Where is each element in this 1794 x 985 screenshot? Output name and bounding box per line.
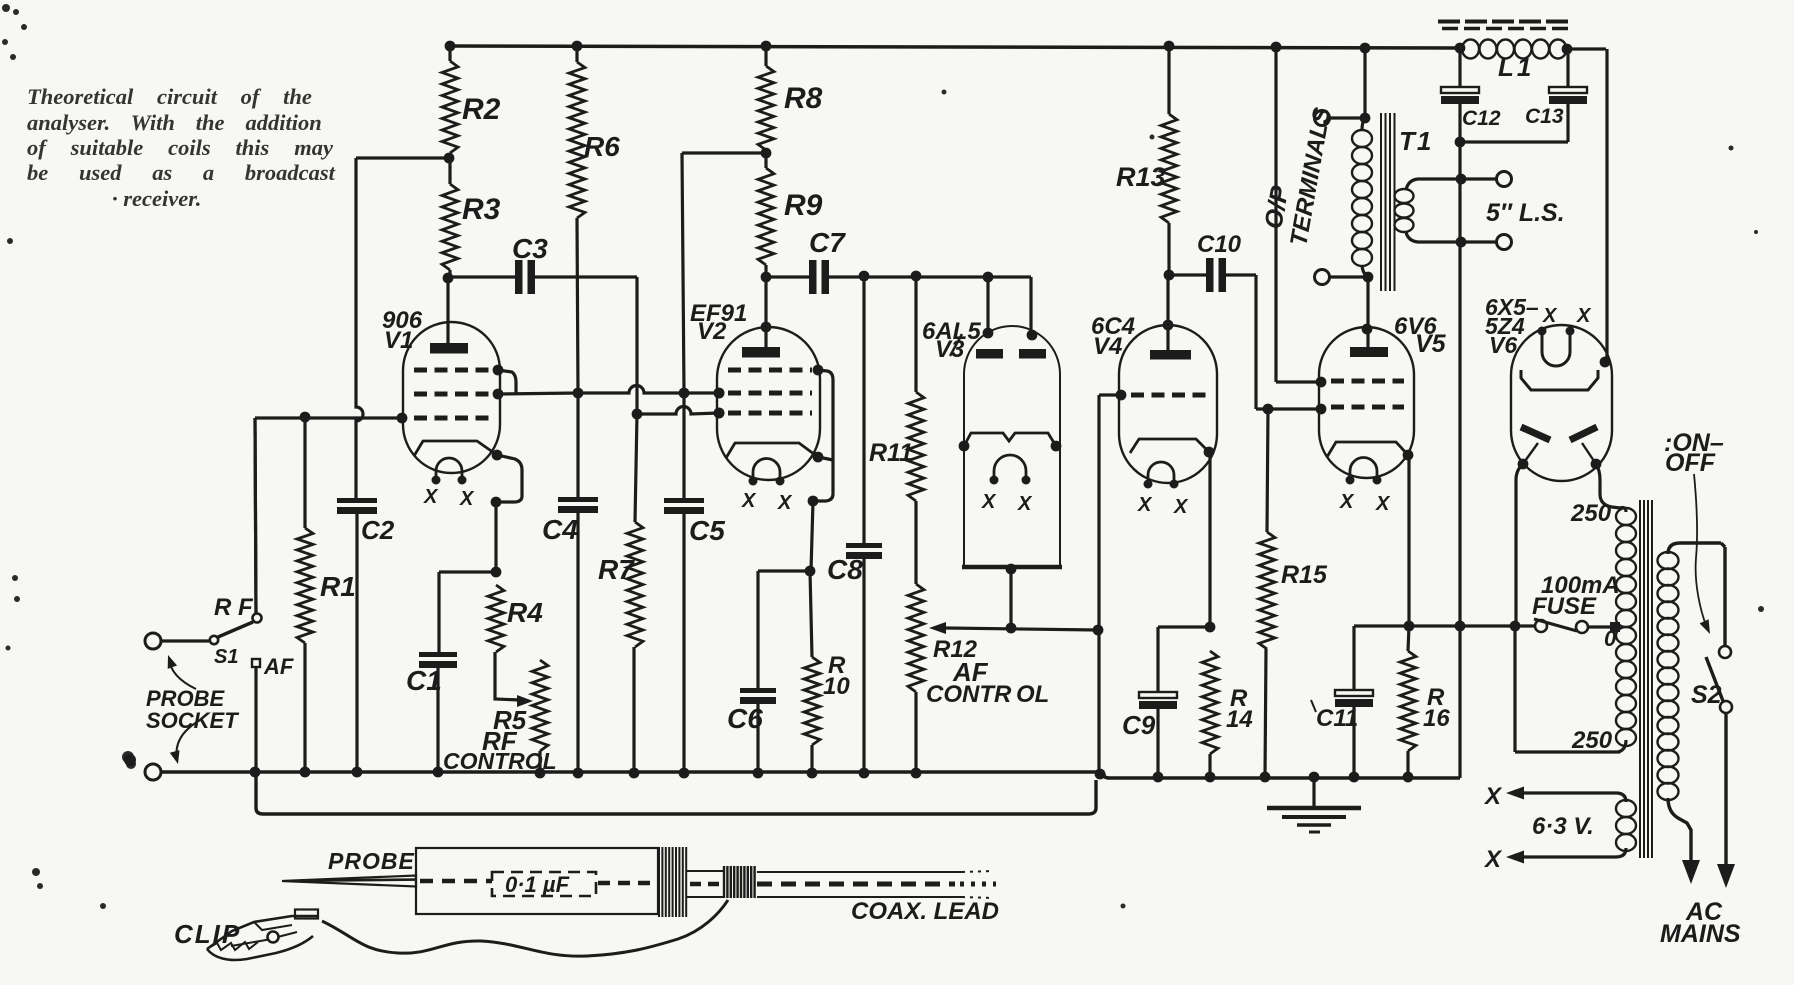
svg-text:PROBE: PROBE <box>328 848 415 874</box>
svg-text:250: 250 <box>1571 727 1613 754</box>
svg-text:C9: C9 <box>1122 710 1156 740</box>
svg-text:R9: R9 <box>784 189 823 222</box>
svg-text:C5: C5 <box>689 515 725 546</box>
svg-text:X: X <box>1483 846 1503 873</box>
svg-text:MAINS: MAINS <box>1660 920 1741 948</box>
svg-text:X: X <box>1173 496 1189 518</box>
svg-text:C1: C1 <box>406 665 442 696</box>
svg-text:OL: OL <box>1016 681 1049 708</box>
svg-text:analyser. With the addition: analyser. With the addition <box>27 110 322 135</box>
svg-text:of suitable coils this may: of suitable coils this may <box>27 135 334 160</box>
svg-text:X: X <box>1483 783 1503 810</box>
svg-text:SOCKET: SOCKET <box>146 708 239 733</box>
svg-text:C13: C13 <box>1525 105 1564 128</box>
svg-text:C6: C6 <box>727 703 763 734</box>
svg-text:R F: R F <box>214 594 254 621</box>
svg-text:X: X <box>1576 305 1592 327</box>
svg-text:R7: R7 <box>598 554 635 585</box>
svg-text:FUSE: FUSE <box>1532 593 1597 620</box>
svg-text:C2: C2 <box>361 515 395 545</box>
svg-text:C11: C11 <box>1316 705 1358 732</box>
svg-text:R11: R11 <box>869 439 913 467</box>
svg-text:· receiver.: · receiver. <box>112 186 201 211</box>
svg-text:V4: V4 <box>1093 333 1122 360</box>
svg-text:C7: C7 <box>809 227 846 258</box>
svg-text:X: X <box>741 490 757 512</box>
svg-text:CONTROL: CONTROL <box>443 748 557 774</box>
svg-text:R13: R13 <box>1116 162 1166 192</box>
svg-text:AF: AF <box>263 654 294 679</box>
svg-text:C8: C8 <box>827 554 863 585</box>
svg-text:X: X <box>459 488 475 510</box>
svg-text:X: X <box>1339 491 1355 513</box>
svg-text:L1: L1 <box>1498 52 1534 82</box>
svg-text:R15: R15 <box>1281 561 1328 589</box>
svg-text:C12: C12 <box>1462 107 1501 130</box>
svg-text:CONTR: CONTR <box>926 681 1012 708</box>
svg-text:6·3 V.: 6·3 V. <box>1532 813 1594 840</box>
svg-text:16: 16 <box>1423 705 1450 732</box>
svg-text:C4: C4 <box>542 514 578 545</box>
svg-text:X: X <box>981 491 997 513</box>
svg-text:X: X <box>1375 493 1391 515</box>
svg-text:10: 10 <box>823 673 850 700</box>
svg-text:S2: S2 <box>1691 681 1722 709</box>
svg-text:R3: R3 <box>462 193 501 226</box>
svg-text:X: X <box>1017 493 1033 515</box>
svg-text:CLIP: CLIP <box>174 919 241 949</box>
svg-text:X: X <box>1137 494 1153 516</box>
svg-text:R6: R6 <box>584 131 620 162</box>
svg-text:0·1 µF: 0·1 µF <box>505 872 570 897</box>
svg-text:be used as a broadcast: be used as a broadcast <box>27 160 336 185</box>
svg-text:X: X <box>423 486 439 508</box>
svg-text:V5: V5 <box>1415 330 1447 358</box>
svg-text:X: X <box>777 492 793 514</box>
svg-text:S1: S1 <box>214 646 238 668</box>
svg-text:X: X <box>1542 305 1558 327</box>
svg-text:V1: V1 <box>384 327 413 354</box>
svg-text:R8: R8 <box>784 82 823 115</box>
svg-text:5″ L.S.: 5″ L.S. <box>1486 199 1565 227</box>
svg-text:V6: V6 <box>1489 332 1517 358</box>
svg-text:C10: C10 <box>1197 231 1242 258</box>
svg-text:0: 0 <box>1604 626 1617 651</box>
svg-text:Theoretical circuit of the: Theoretical circuit of the <box>27 84 312 109</box>
svg-text:R1: R1 <box>320 571 356 602</box>
svg-text:R2: R2 <box>462 93 501 126</box>
svg-text:14: 14 <box>1226 706 1253 733</box>
svg-text:OFF: OFF <box>1665 449 1716 477</box>
svg-text:R4: R4 <box>507 597 543 628</box>
svg-text:T1: T1 <box>1399 126 1433 156</box>
svg-text:V3: V3 <box>935 336 965 363</box>
svg-text:C3: C3 <box>512 233 548 264</box>
svg-text:V2: V2 <box>697 318 727 345</box>
svg-text:250: 250 <box>1570 500 1612 527</box>
svg-text:COAX. LEAD: COAX. LEAD <box>851 898 999 925</box>
